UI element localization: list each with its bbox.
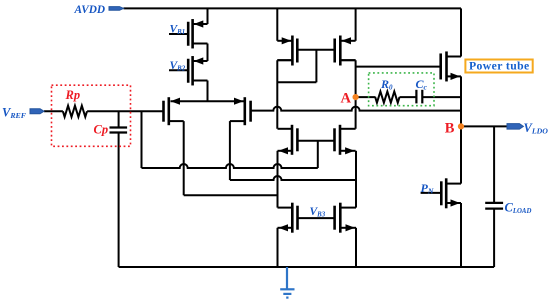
- svg-text:A: A: [341, 91, 352, 107]
- svg-text:Power tube: Power tube: [469, 60, 530, 73]
- svg-text:R0: R0: [380, 77, 393, 92]
- svg-text:VB3: VB3: [310, 206, 326, 219]
- svg-text:Cc: Cc: [416, 77, 428, 92]
- svg-text:Rp: Rp: [65, 88, 81, 102]
- svg-text:B: B: [445, 120, 455, 136]
- svg-text:Cp: Cp: [94, 122, 109, 136]
- svg-text:VB1: VB1: [170, 23, 186, 36]
- svg-text:VB2: VB2: [170, 60, 186, 73]
- svg-text:VLDO: VLDO: [524, 121, 549, 136]
- svg-text:AVDD: AVDD: [74, 4, 106, 16]
- svg-text:PN: PN: [421, 181, 434, 196]
- svg-text:VREF: VREF: [2, 105, 27, 120]
- svg-text:CLOAD: CLOAD: [505, 200, 532, 215]
